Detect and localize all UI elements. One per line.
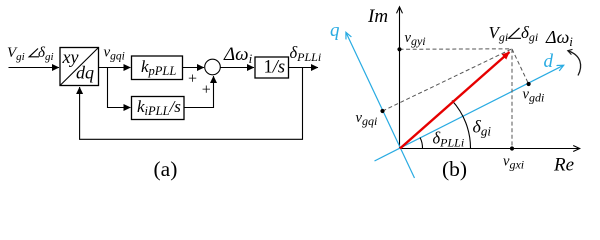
arrow rotation arc bbox=[568, 51, 581, 76]
svg-text:Re: Re bbox=[553, 155, 574, 176]
node v_gdi dot bbox=[527, 82, 531, 86]
svg-text:q: q bbox=[330, 20, 340, 41]
svg-text:1/s: 1/s bbox=[264, 58, 286, 78]
dashed diagonal v_gqi to tip bbox=[383, 49, 513, 111]
svg-text:δgi: δgi bbox=[521, 23, 538, 44]
svg-text:+: + bbox=[202, 81, 211, 98]
block U1 xy/dq transform bbox=[60, 47, 99, 86]
svg-text:δPLLi: δPLLi bbox=[433, 129, 465, 150]
wire kiPLL to summing junction bbox=[184, 76, 214, 108]
dashed vertical tip to v_gxi bbox=[511, 49, 513, 149]
svg-text:vgdi: vgdi bbox=[523, 87, 545, 105]
svg-text:(b): (b) bbox=[442, 157, 467, 181]
svg-text:vgyi: vgyi bbox=[405, 30, 426, 48]
block integrator 1/s bbox=[255, 57, 289, 78]
axis q (cyan) bbox=[346, 33, 415, 179]
svg-text:δgi: δgi bbox=[473, 117, 492, 139]
wire input arrow bbox=[9, 67, 60, 69]
wire output arrow bbox=[289, 67, 319, 69]
svg-text:Im: Im bbox=[367, 6, 388, 27]
axis Re (horizontal) bbox=[400, 148, 580, 150]
arc delta_gi (large) bbox=[452, 101, 471, 149]
wire kpPLL to summing junction bbox=[183, 67, 205, 69]
block kiPLL/s bbox=[132, 97, 185, 120]
node v_gqi dot bbox=[380, 109, 384, 113]
svg-text:δgi: δgi bbox=[38, 45, 54, 63]
svg-text:+: + bbox=[188, 70, 197, 87]
svg-text:dq: dq bbox=[76, 63, 94, 83]
block kpPLL bbox=[132, 56, 183, 80]
dashed short tip to v_gdi bbox=[512, 49, 529, 84]
axis Im (vertical) bbox=[399, 7, 401, 149]
wire branch down to kiPLL bbox=[108, 68, 131, 108]
axis d (cyan) bbox=[375, 65, 564, 161]
svg-text:δPLLi: δPLLi bbox=[290, 43, 322, 64]
svg-text:Vgi: Vgi bbox=[7, 45, 25, 63]
svg-text:(a): (a) bbox=[154, 157, 178, 181]
vector V_gi (red) bbox=[400, 52, 510, 149]
wire summing junction to 1/s bbox=[220, 67, 254, 69]
arc delta_PLLi (small) bbox=[420, 138, 423, 149]
svg-text:Vgi: Vgi bbox=[489, 23, 509, 44]
svg-text:Δωi: Δωi bbox=[223, 44, 253, 66]
summing junction S1 bbox=[205, 59, 221, 75]
wire feedback loop bbox=[80, 68, 303, 140]
svg-text:d: d bbox=[544, 51, 554, 72]
node v_gyi dot bbox=[397, 47, 401, 51]
svg-text:vgxi: vgxi bbox=[503, 154, 524, 172]
svg-text:vgqi: vgqi bbox=[104, 45, 125, 63]
wire v_gqi to kpPLL bbox=[99, 67, 131, 69]
svg-text:vgqi: vgqi bbox=[356, 110, 378, 128]
label V_gi angle delta_gi (phasor) bbox=[489, 23, 539, 44]
svg-text:Δωi: Δωi bbox=[545, 27, 573, 49]
dashed horizontal v_gyi to tip bbox=[400, 48, 513, 51]
label Vgi angle delta_gi (input) bbox=[7, 45, 54, 63]
node v_gxi dot bbox=[510, 146, 514, 150]
